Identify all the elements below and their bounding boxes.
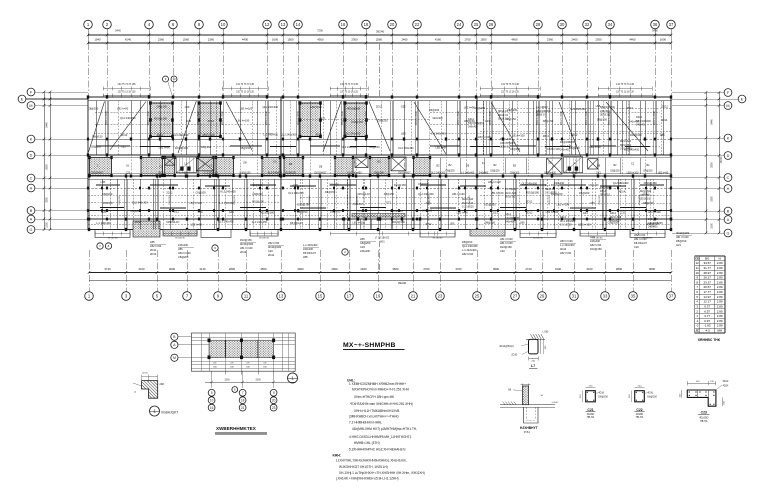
svg-text:3900: 3900 bbox=[297, 267, 304, 271]
svg-text:3D18 2/1: 3D18 2/1 bbox=[498, 114, 509, 117]
svg-text:20.57: 20.57 bbox=[703, 285, 711, 289]
svg-text:3700: 3700 bbox=[455, 267, 462, 271]
svg-text:C23: C23 bbox=[701, 411, 707, 415]
svg-text:2D12 L=3440: 2D12 L=3440 bbox=[342, 110, 344, 125]
svg-text:LB2 h=90: LB2 h=90 bbox=[560, 251, 572, 255]
svg-text:14: 14 bbox=[296, 22, 301, 27]
svg-text:B2: B2 bbox=[436, 163, 440, 167]
svg-text:D8@200: D8@200 bbox=[598, 396, 608, 399]
svg-text:C8@200: C8@200 bbox=[377, 118, 388, 122]
svg-text:C8@200: C8@200 bbox=[510, 172, 520, 175]
svg-text:4D14: 4D14 bbox=[207, 119, 214, 123]
svg-text:2360: 2360 bbox=[158, 38, 165, 42]
svg-text:C8@200: C8@200 bbox=[130, 209, 141, 213]
svg-text:L-1 240x400: L-1 240x400 bbox=[204, 172, 218, 175]
svg-text:3300: 3300 bbox=[46, 197, 49, 203]
svg-text:4D10@180: 4D10@180 bbox=[676, 231, 690, 235]
svg-text:2D12: 2D12 bbox=[425, 222, 432, 226]
svg-text:4460: 4460 bbox=[629, 38, 636, 42]
svg-text:D10@150: D10@150 bbox=[240, 238, 252, 242]
svg-text:5440: 5440 bbox=[711, 119, 714, 125]
svg-text:LB1 h=100: LB1 h=100 bbox=[491, 191, 504, 195]
svg-text:3.77: 3.77 bbox=[704, 314, 710, 318]
svg-text:2.80: 2.80 bbox=[717, 266, 723, 270]
svg-text:17: 17 bbox=[347, 294, 352, 299]
svg-text:GZ1: GZ1 bbox=[401, 104, 407, 108]
svg-text:2900: 2900 bbox=[331, 267, 338, 271]
svg-text:D10@150: D10@150 bbox=[647, 222, 659, 226]
svg-text:2D12 L=3440: 2D12 L=3440 bbox=[586, 110, 588, 125]
svg-text:-2: -2 bbox=[696, 324, 699, 328]
svg-text:D8@150: D8@150 bbox=[92, 135, 103, 139]
svg-text:24: 24 bbox=[457, 22, 462, 27]
svg-text:D8: D8 bbox=[597, 163, 601, 167]
svg-text:GZ1: GZ1 bbox=[596, 172, 601, 175]
svg-text:35: 35 bbox=[631, 294, 636, 299]
svg-text:C2: C2 bbox=[159, 164, 163, 168]
svg-text:D8@150: D8@150 bbox=[485, 220, 496, 224]
svg-text:2300: 2300 bbox=[351, 38, 358, 42]
svg-text:D10@150: D10@150 bbox=[394, 183, 406, 187]
svg-text:D8@200: D8@200 bbox=[549, 195, 551, 204]
svg-text:5.3XHHH4XHPHC HGZ.XH=HEHAHa?c: 5.3XHHH4XHPHC HGZ.XH=HEHAHa?c bbox=[349, 447, 406, 451]
svg-text:LB1 h=100: LB1 h=100 bbox=[237, 119, 250, 123]
svg-text:2D12: 2D12 bbox=[135, 220, 142, 224]
svg-text:2D12: 2D12 bbox=[240, 250, 247, 254]
svg-text:C8@200: C8@200 bbox=[507, 108, 518, 112]
svg-text:H: H bbox=[30, 186, 33, 190]
svg-text:D: D bbox=[727, 154, 730, 158]
svg-text:C20: C20 bbox=[184, 172, 189, 175]
svg-text:37: 37 bbox=[669, 294, 674, 299]
svg-text:L.080: L.080 bbox=[543, 332, 549, 334]
svg-text:LB5: LB5 bbox=[303, 255, 308, 259]
svg-text:2860: 2860 bbox=[229, 267, 236, 271]
svg-text:2.80: 2.80 bbox=[717, 300, 723, 304]
svg-text:D8 D94-D7: D8 D94-D7 bbox=[634, 241, 648, 245]
svg-text:D8: D8 bbox=[319, 164, 323, 168]
svg-text:C20: C20 bbox=[500, 249, 505, 253]
svg-text:GZ1: GZ1 bbox=[386, 201, 392, 205]
svg-text:2300: 2300 bbox=[595, 38, 602, 42]
svg-text:34: 34 bbox=[608, 22, 613, 27]
svg-text:2D12: 2D12 bbox=[662, 105, 669, 109]
svg-text:240x400: 240x400 bbox=[432, 116, 443, 120]
svg-text:C8@200: C8@200 bbox=[91, 144, 102, 148]
svg-text:4D10@180: 4D10@180 bbox=[526, 190, 540, 194]
svg-text:C30 HPB235: C30 HPB235 bbox=[505, 217, 520, 220]
svg-text:120 75 13 18 120: 120 75 13 18 120 bbox=[118, 92, 137, 94]
svg-text:H: H bbox=[727, 187, 730, 191]
svg-text:2.80: 2.80 bbox=[717, 261, 723, 265]
svg-text:2D12 L=3440: 2D12 L=3440 bbox=[148, 110, 150, 125]
svg-text:3300: 3300 bbox=[255, 379, 261, 382]
svg-text:K1: K1 bbox=[209, 163, 213, 167]
svg-text:2.80: 2.80 bbox=[717, 271, 723, 275]
svg-text:3500: 3500 bbox=[260, 267, 267, 271]
svg-text:240x400: 240x400 bbox=[629, 120, 640, 124]
svg-text:-1.83: -1.83 bbox=[704, 324, 711, 328]
svg-text:2600: 2600 bbox=[711, 162, 714, 168]
svg-text:4D10@180: 4D10@180 bbox=[644, 181, 658, 185]
svg-text:XRHHBC THK: XRHHBC THK bbox=[698, 338, 721, 342]
svg-text:D8@200: D8@200 bbox=[469, 195, 471, 204]
svg-text:2D12: 2D12 bbox=[572, 172, 578, 175]
svg-text:6.57: 6.57 bbox=[704, 309, 710, 313]
svg-text:120 75 13 18 120: 120 75 13 18 120 bbox=[616, 92, 635, 94]
svg-text:90 180 90: 90 180 90 bbox=[533, 237, 544, 239]
svg-text:2D12 L=3440: 2D12 L=3440 bbox=[106, 110, 108, 125]
svg-text:4D14: 4D14 bbox=[619, 190, 626, 194]
svg-text:L-1 240x400: L-1 240x400 bbox=[96, 221, 111, 225]
svg-text:D8@200: D8@200 bbox=[647, 396, 657, 399]
svg-text:2.80: 2.80 bbox=[717, 304, 723, 308]
svg-text:16: 16 bbox=[210, 406, 214, 410]
svg-text:QL2 240x300: QL2 240x300 bbox=[613, 181, 629, 185]
svg-text:LB2 h=90: LB2 h=90 bbox=[159, 145, 171, 149]
svg-text:134 75 73 73 138: 134 75 73 73 138 bbox=[118, 84, 137, 86]
svg-text:KL3 240x450: KL3 240x450 bbox=[398, 146, 414, 150]
svg-text:D8@150: D8@150 bbox=[543, 119, 554, 123]
svg-text:WJXGHHXGT XH1GTH .1H25.LH): WJXGHHXGT XH1GTH .1H25.LH) bbox=[339, 465, 388, 469]
svg-text:D8@200: D8@200 bbox=[643, 171, 653, 173]
svg-text:LB1 h=100: LB1 h=100 bbox=[500, 241, 513, 245]
svg-text:23: 23 bbox=[272, 406, 276, 410]
svg-text:4D10@180: 4D10@180 bbox=[347, 106, 361, 110]
svg-text:G: G bbox=[30, 228, 33, 232]
svg-text:C20: C20 bbox=[621, 211, 626, 215]
svg-text:33: 33 bbox=[603, 294, 608, 299]
svg-text:D8 D94-D7: D8 D94-D7 bbox=[92, 172, 105, 175]
svg-text:MX~+-SHMPHB: MX~+-SHMPHB bbox=[343, 342, 396, 349]
svg-text:C20: C20 bbox=[360, 245, 365, 249]
svg-text:12.17: 12.17 bbox=[703, 300, 711, 304]
svg-text:41b(MHLXHM HXT) pJMHTHM(hw=HTH: 41b(MHLXHM HXT) pJMHTHM(hw=HTH1.TH, bbox=[352, 427, 417, 431]
svg-text:LB5: LB5 bbox=[100, 180, 105, 184]
svg-text:D8@200: D8@200 bbox=[445, 171, 455, 173]
svg-text:QL2 240x300: QL2 240x300 bbox=[281, 132, 297, 136]
svg-text:D8@200: D8@200 bbox=[599, 195, 601, 204]
svg-text:A: A bbox=[727, 218, 730, 222]
svg-text:29: 29 bbox=[540, 294, 545, 299]
svg-text:D8 D94-D7: D8 D94-D7 bbox=[399, 172, 412, 175]
svg-text:2-2 16D20: 2-2 16D20 bbox=[462, 206, 474, 209]
svg-text:17 1B 1BA D2: 17 1B 1BA D2 bbox=[375, 237, 390, 240]
svg-text:M: M bbox=[726, 104, 729, 108]
svg-text:2D12 L=3440: 2D12 L=3440 bbox=[266, 110, 268, 125]
svg-text:2D12: 2D12 bbox=[121, 133, 128, 137]
svg-text:L-1 240x400: L-1 240x400 bbox=[219, 201, 234, 205]
svg-text:LB3 h=100: LB3 h=100 bbox=[544, 172, 556, 175]
svg-text:2D12: 2D12 bbox=[376, 104, 383, 108]
svg-text:3100: 3100 bbox=[138, 267, 145, 271]
svg-text:C21: C21 bbox=[587, 408, 593, 412]
svg-text:C8@200: C8@200 bbox=[195, 191, 206, 195]
svg-text:B2: B2 bbox=[513, 164, 517, 168]
svg-text:LB5: LB5 bbox=[178, 247, 183, 251]
svg-text:2.80: 2.80 bbox=[717, 276, 723, 280]
svg-text:120 75 13 18 120: 120 75 13 18 120 bbox=[236, 92, 255, 94]
svg-text:P=61: P=61 bbox=[524, 430, 531, 434]
svg-text:MH: MH bbox=[717, 329, 722, 333]
svg-text:26: 26 bbox=[489, 22, 494, 27]
svg-text:14.97: 14.97 bbox=[703, 295, 711, 299]
svg-text:2.80: 2.80 bbox=[717, 285, 723, 289]
svg-text:D10@150: D10@150 bbox=[252, 200, 264, 204]
svg-text:K: K bbox=[727, 136, 730, 140]
svg-text:4400: 4400 bbox=[242, 38, 249, 42]
svg-text:134 75 73 73 138: 134 75 73 73 138 bbox=[501, 84, 520, 86]
svg-text:D8 D94-D7: D8 D94-D7 bbox=[358, 192, 372, 196]
svg-text:2D12: 2D12 bbox=[150, 252, 157, 256]
svg-text:13: 13 bbox=[281, 22, 286, 27]
svg-text:LB3 h=100: LB3 h=100 bbox=[546, 210, 559, 214]
svg-text:D8@200: D8@200 bbox=[309, 195, 311, 204]
svg-text:D10@150: D10@150 bbox=[590, 247, 602, 251]
svg-text:LB5: LB5 bbox=[660, 133, 665, 137]
svg-text:240x400: 240x400 bbox=[554, 181, 565, 185]
svg-text:37: 37 bbox=[669, 22, 674, 27]
svg-text:B: B bbox=[30, 209, 33, 213]
svg-text:LB2 h=90: LB2 h=90 bbox=[435, 145, 447, 149]
svg-text:1600: 1600 bbox=[660, 38, 667, 42]
svg-text:31: 31 bbox=[572, 294, 577, 299]
svg-text:KL3 240x450: KL3 240x450 bbox=[252, 220, 268, 224]
svg-text:7200: 7200 bbox=[317, 29, 323, 33]
svg-text:C20: C20 bbox=[268, 249, 273, 253]
svg-text:LB1 h=100: LB1 h=100 bbox=[512, 133, 525, 137]
svg-text:2D8: 2D8 bbox=[160, 383, 165, 386]
svg-text:GZ1: GZ1 bbox=[229, 210, 235, 214]
svg-text:1940: 1940 bbox=[94, 38, 101, 42]
svg-text:LB3 h=100: LB3 h=100 bbox=[240, 107, 253, 111]
svg-text:M21 L644: M21 L644 bbox=[500, 138, 512, 141]
svg-text:27: 27 bbox=[513, 294, 518, 299]
svg-text:D6@200: D6@200 bbox=[579, 191, 590, 195]
svg-text:M21 L644: M21 L644 bbox=[462, 202, 474, 205]
svg-text:D8@200: D8@200 bbox=[169, 195, 171, 204]
svg-text:KL3 240x450: KL3 240x450 bbox=[342, 145, 358, 149]
svg-text:90 180 90: 90 180 90 bbox=[175, 237, 186, 239]
svg-text:32: 32 bbox=[585, 22, 590, 27]
svg-text:C8@200: C8@200 bbox=[510, 147, 521, 151]
svg-text:C8@200: C8@200 bbox=[252, 192, 263, 196]
svg-text:C20: C20 bbox=[634, 245, 639, 249]
svg-text:22: 22 bbox=[415, 22, 420, 27]
svg-text:D8 D94-D7: D8 D94-D7 bbox=[303, 251, 317, 255]
svg-text:QL2 240x300: QL2 240x300 bbox=[345, 131, 361, 135]
svg-text:KL3 240x450: KL3 240x450 bbox=[173, 133, 189, 137]
svg-text:2560: 2560 bbox=[183, 38, 190, 42]
svg-text:16: 16 bbox=[341, 22, 346, 27]
svg-text:4D14@50(2): 4D14@50(2) bbox=[499, 345, 514, 348]
svg-text:4D16: 4D16 bbox=[598, 392, 604, 395]
svg-text:2D12 L=3440: 2D12 L=3440 bbox=[416, 110, 418, 125]
svg-text:*EXHTAXHH=mm XHIGHH=H+H0.251 X: *EXHTAXHH=mm XHIGHH=H+H0.251 XHHj bbox=[350, 402, 413, 406]
svg-text:4D10@180: 4D10@180 bbox=[154, 116, 168, 120]
svg-text:2D12 L=3440: 2D12 L=3440 bbox=[490, 110, 492, 125]
svg-text:2600: 2600 bbox=[46, 164, 49, 170]
svg-text:18: 18 bbox=[241, 398, 245, 402]
svg-text:G: G bbox=[727, 231, 730, 235]
svg-text:C20: C20 bbox=[186, 119, 191, 123]
svg-text:-1: -1 bbox=[696, 319, 699, 323]
svg-text:4D14: 4D14 bbox=[157, 133, 164, 137]
svg-text:KZL2: KZL2 bbox=[600, 190, 607, 193]
svg-text:LB2 h=90: LB2 h=90 bbox=[191, 222, 203, 226]
svg-text:M21 L644: M21 L644 bbox=[462, 198, 474, 201]
svg-text:D8: D8 bbox=[548, 160, 552, 164]
svg-text:2360: 2360 bbox=[208, 38, 215, 42]
svg-text:KL3 240x450: KL3 240x450 bbox=[347, 172, 362, 175]
svg-text:D6@200: D6@200 bbox=[429, 108, 440, 112]
svg-text:(3MHXHBCH xm,HXTHH+=+THHG: (3MHXHBCH xm,HXTHH+=+THHG bbox=[349, 414, 399, 418]
svg-text:D: D bbox=[30, 153, 33, 157]
svg-text:1500: 1500 bbox=[287, 38, 294, 42]
svg-text:C20: C20 bbox=[185, 105, 190, 109]
svg-text:LB3 h=100: LB3 h=100 bbox=[178, 251, 191, 255]
svg-text:90 180 90: 90 180 90 bbox=[593, 237, 604, 239]
svg-text:30: 30 bbox=[560, 22, 565, 27]
svg-text:KL3 240x450: KL3 240x450 bbox=[268, 172, 283, 175]
svg-text:240x400: 240x400 bbox=[468, 126, 478, 129]
svg-text:2D12: 2D12 bbox=[571, 133, 578, 137]
svg-text:D8@200: D8@200 bbox=[234, 195, 236, 204]
svg-text:1500: 1500 bbox=[46, 222, 49, 228]
svg-text:20: 20 bbox=[390, 22, 395, 27]
svg-text:0.97: 0.97 bbox=[704, 319, 710, 323]
svg-text:90 180 90: 90 180 90 bbox=[108, 237, 119, 239]
svg-text:LB1 h=100: LB1 h=100 bbox=[452, 192, 465, 196]
svg-text:D8: D8 bbox=[466, 164, 470, 168]
svg-text:K1: K1 bbox=[482, 161, 486, 165]
svg-text:LB1 h=100: LB1 h=100 bbox=[488, 180, 501, 184]
svg-text:2.80: 2.80 bbox=[717, 295, 723, 299]
svg-text:D10@150: D10@150 bbox=[630, 133, 642, 137]
svg-text:25: 25 bbox=[474, 22, 479, 27]
svg-text:LB3 h=100: LB3 h=100 bbox=[189, 201, 202, 205]
svg-text:25: 25 bbox=[475, 294, 480, 299]
svg-text:HMHB=1HL (3TH): HMHB=1HL (3TH) bbox=[354, 441, 380, 445]
svg-text:D8: D8 bbox=[243, 160, 247, 164]
svg-text:LB5: LB5 bbox=[360, 237, 365, 241]
svg-text:240x400: 240x400 bbox=[422, 209, 433, 213]
svg-text:3D18 2/1: 3D18 2/1 bbox=[505, 196, 516, 199]
svg-text:2.80: 2.80 bbox=[717, 314, 723, 318]
svg-text:4D24: 4D24 bbox=[723, 384, 729, 387]
svg-text:C: C bbox=[30, 176, 33, 180]
svg-text:3800: 3800 bbox=[649, 267, 656, 271]
svg-text:39240: 39240 bbox=[376, 30, 385, 34]
svg-text:5450: 5450 bbox=[652, 29, 658, 33]
svg-text:2D12 L=3440: 2D12 L=3440 bbox=[537, 110, 539, 125]
svg-text:4D10@180: 4D10@180 bbox=[268, 245, 282, 249]
svg-text:3740: 3740 bbox=[104, 267, 111, 271]
svg-text:HB-HA: HB-HA bbox=[587, 416, 595, 419]
svg-text:D10@150: D10@150 bbox=[240, 172, 251, 175]
svg-text:10: 10 bbox=[696, 271, 700, 275]
svg-text:11: 11 bbox=[696, 266, 699, 270]
svg-text:2D12 L=3440: 2D12 L=3440 bbox=[561, 110, 563, 125]
svg-text:C8@200: C8@200 bbox=[252, 183, 263, 187]
svg-text:C8@200: C8@200 bbox=[178, 255, 189, 259]
svg-text:2D12 L=3440: 2D12 L=3440 bbox=[198, 110, 200, 125]
svg-text:2D12: 2D12 bbox=[268, 253, 275, 257]
svg-text:240x400: 240x400 bbox=[360, 249, 371, 253]
svg-text:LB2 h=90: LB2 h=90 bbox=[462, 252, 474, 256]
svg-text:C8@200: C8@200 bbox=[588, 183, 599, 187]
svg-text:LB2 h=90: LB2 h=90 bbox=[117, 106, 129, 110]
svg-text:4D10@180: 4D10@180 bbox=[392, 220, 406, 224]
svg-text:KL3 240x450: KL3 240x450 bbox=[624, 147, 640, 151]
svg-text:2D12: 2D12 bbox=[643, 191, 650, 195]
svg-text:5440: 5440 bbox=[46, 122, 49, 128]
svg-text:C8@200: C8@200 bbox=[201, 145, 212, 149]
svg-text:15: 15 bbox=[318, 294, 323, 299]
svg-text:D8@200: D8@200 bbox=[490, 171, 500, 173]
svg-text:120 75 13 18 120: 120 75 13 18 120 bbox=[501, 92, 520, 94]
svg-text:36: 36 bbox=[653, 22, 658, 27]
svg-text:C20: C20 bbox=[126, 172, 131, 175]
svg-text:LB5: LB5 bbox=[520, 220, 525, 224]
svg-text:9.37: 9.37 bbox=[704, 304, 710, 308]
svg-text:D8@150: D8@150 bbox=[384, 192, 395, 196]
svg-text:GZ1: GZ1 bbox=[493, 211, 499, 215]
svg-text:E: E bbox=[21, 97, 24, 101]
svg-text:D8@100/200: D8@100/200 bbox=[600, 106, 615, 109]
svg-text:M: M bbox=[173, 356, 176, 360]
svg-text:4D16: 4D16 bbox=[647, 392, 653, 395]
svg-text:5440: 5440 bbox=[115, 29, 121, 33]
svg-text:134 75 73 73 138: 134 75 73 73 138 bbox=[616, 84, 635, 86]
svg-text:2560: 2560 bbox=[376, 38, 383, 42]
svg-text:D10@150: D10@150 bbox=[500, 245, 512, 249]
svg-text:LB2 h=90: LB2 h=90 bbox=[311, 105, 323, 109]
svg-text:QL2 240x300: QL2 240x300 bbox=[263, 105, 279, 109]
svg-text:3500: 3500 bbox=[392, 267, 399, 271]
svg-text:QL2 240x300: QL2 240x300 bbox=[418, 192, 434, 196]
svg-text:-4.5: -4.5 bbox=[705, 329, 711, 333]
svg-text:D8@150: D8@150 bbox=[157, 104, 168, 108]
svg-text:28.97: 28.97 bbox=[703, 271, 711, 275]
svg-text:1 XEMHCXIZMHMH XRHBZmm RHHH+: 1 XEMHCXIZMHMH XRHBZmm RHHH+ bbox=[349, 382, 406, 386]
svg-text:2460: 2460 bbox=[401, 38, 408, 42]
svg-text:D8@150: D8@150 bbox=[462, 240, 473, 244]
svg-text:HB-HA: HB-HA bbox=[700, 420, 708, 423]
svg-text:LB3 h=100: LB3 h=100 bbox=[627, 172, 639, 175]
svg-text:23.37: 23.37 bbox=[703, 280, 711, 284]
svg-text:10: 10 bbox=[221, 22, 226, 27]
svg-text:LB1 h=100: LB1 h=100 bbox=[676, 235, 689, 239]
svg-text:21: 21 bbox=[241, 406, 245, 410]
svg-text:L-1 240x400: L-1 240x400 bbox=[303, 243, 318, 247]
svg-text:LB1 h=100: LB1 h=100 bbox=[556, 202, 569, 206]
svg-text:3300: 3300 bbox=[711, 196, 714, 202]
svg-text:HJXHBHYT: HJXHBHYT bbox=[520, 426, 538, 430]
svg-text:5: 5 bbox=[211, 391, 213, 395]
svg-text:9D12: 9D12 bbox=[723, 380, 729, 383]
svg-text:D8@100/200: D8@100/200 bbox=[560, 141, 575, 144]
svg-text:L-1 240x400: L-1 240x400 bbox=[560, 243, 575, 247]
svg-text:240x400: 240x400 bbox=[479, 172, 489, 175]
svg-text:D8@200: D8@200 bbox=[119, 195, 121, 204]
svg-text:4D10@180: 4D10@180 bbox=[175, 146, 189, 150]
svg-text:L-1 240x400: L-1 240x400 bbox=[263, 133, 278, 137]
svg-text:D8@150: D8@150 bbox=[464, 119, 475, 123]
svg-text:3D18 2/1: 3D18 2/1 bbox=[640, 198, 651, 201]
svg-text:4160: 4160 bbox=[435, 38, 442, 42]
svg-text:1600: 1600 bbox=[272, 38, 279, 42]
